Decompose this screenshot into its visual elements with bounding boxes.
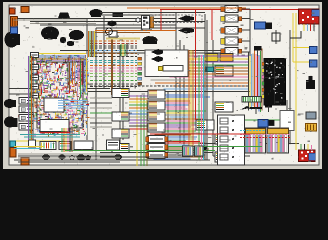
row connectors [138,57,142,85]
switch S3 [74,141,93,150]
label specks [14,8,316,162]
connector yellow top [205,54,218,62]
wire green low [150,145,262,147]
sensor bottom [199,146,208,151]
motor M2 [58,155,65,160]
rear harness connector B [267,128,289,153]
interior lamp 1 [178,16,194,22]
harness center-left [90,41,137,87]
wire [30,21,205,23]
connector bottom B [195,146,204,156]
connector XB3 [148,112,165,121]
harness to fuse box [249,48,263,112]
ignition relay [58,13,70,19]
ignition coil [272,30,280,44]
connector XA2 [112,112,129,121]
switch S1 [40,142,56,150]
lamp bullet 4b [151,56,163,62]
connector nub yellow [159,67,163,71]
wire [204,14,206,160]
wire [14,159,210,161]
instrument cluster window [44,98,64,112]
wire yellow bundle [136,95,138,166]
connector XC5 [196,120,214,130]
lamp L3 [221,27,242,35]
wire green right [240,119,290,121]
wire dashed bus [90,85,250,87]
relay box [142,16,154,30]
wire bundle right [240,131,291,138]
connector bottom A [183,146,194,156]
wire [183,45,185,150]
scan noise [10,6,319,164]
wire [9,88,110,90]
wire [40,24,176,26]
switch S2 [59,142,71,150]
harness vertical center [189,10,204,160]
wire [95,28,97,160]
turn lamp orange [21,7,29,13]
wire green bundle [143,95,145,166]
black drop [202,150,204,158]
wire brown trunk [111,33,113,95]
wire trunk pair [206,20,208,160]
regulator stripes [13,18,16,26]
coolant sensor [67,41,75,46]
cluster teal rows [20,135,80,138]
tail lamp cluster [218,115,245,165]
wire red top [160,9,299,11]
wire [86,19,88,140]
wire yellow bottom [14,140,60,142]
wire yellow branch [293,47,310,49]
connector XA3 [112,129,129,138]
rear harness connector A [245,128,266,153]
cluster bottom drop [62,128,72,152]
lamp bullet 3 [151,49,163,55]
connector yellow right [306,124,317,132]
switch outline b [163,66,183,72]
wiper motor [143,36,158,44]
box bottom-left [29,140,36,147]
motor M3 [77,155,92,161]
cluster backdrop [30,54,87,135]
starter [69,30,84,40]
lamp bullet 3b [151,49,163,55]
headlamp lower [4,117,18,128]
battery wires [301,144,312,150]
harness left of column [90,98,112,127]
wire orange top [95,30,176,32]
harness center [129,95,210,159]
lamp L2 [221,15,242,22]
wire red low2 [150,141,200,143]
wire [14,18,176,20]
connector orange top [220,54,233,62]
cluster red row [40,132,70,134]
wire [103,16,105,88]
connector XC1 [215,66,233,76]
connector XC4 [215,152,233,162]
wire [167,92,169,152]
connector XB5 [146,136,168,143]
harness drop to cluster [89,31,95,57]
left harness [29,56,34,140]
harness center-right [151,56,248,89]
distributor cap [266,23,272,29]
teal box [206,67,214,72]
interior lamp 2 [178,28,194,34]
wire [100,152,213,154]
lamp L4 [221,37,242,45]
relay blue small [258,120,268,128]
instrument cluster wiring [30,54,90,138]
green striped connector [242,97,261,103]
lamp L1 [221,6,242,13]
spark plug [254,46,261,56]
connector orange edge [10,8,16,14]
relay R1 blue [310,47,318,54]
wire [90,52,230,54]
interior panel [145,50,188,77]
generator [41,27,59,40]
wire yellow branch [293,61,310,63]
bottom bus [18,154,120,162]
body outline dashed [153,15,202,23]
motor M4 [114,154,122,159]
heater box [107,140,120,150]
wire yellow vertical [292,13,294,62]
wire [88,91,250,93]
wire [9,93,88,95]
wire [179,40,181,143]
washer pump ring [136,18,140,22]
instrument cluster window lower [40,120,69,132]
wire red left [160,10,162,31]
connector XB1 [148,90,165,99]
headlamp upper-left [5,32,21,48]
wire yellow bottom2 [14,146,44,148]
steering column connectors [31,53,39,99]
ignition switch [299,9,320,31]
connector XA1 [112,89,129,98]
switch cyan [10,141,16,147]
wire orange bus top [127,7,246,9]
instrument cluster outline [37,62,83,128]
connector nub yellow b [159,67,163,71]
connector XC3 [215,134,233,144]
black bracket [269,120,275,126]
connector XB2 [148,101,165,110]
wire [119,45,121,152]
wire red low [150,133,250,135]
wire [213,155,250,157]
wire brown top [95,32,150,34]
connector XB6 [146,144,168,151]
top bus extra [14,13,205,24]
wire [60,50,230,52]
wiper relay [113,13,123,17]
washer pump [106,28,113,35]
relay R2 blue [310,60,318,67]
wire olive bundle [146,100,148,166]
license lamp box [280,111,294,131]
wire cyan bottom [14,148,40,150]
relay orange [11,17,18,28]
fog lamp [4,99,16,108]
battery [299,150,316,162]
connector XB7 [146,152,168,159]
wire [200,143,299,145]
connector XA4 [112,144,129,153]
switch outline [163,66,183,72]
relay small white [109,31,117,37]
lever switch [240,106,252,110]
wire [289,30,291,143]
harness drop to junction [121,44,127,56]
wire red drop [211,10,213,41]
oil sensor [60,37,66,43]
lamp feed wires [242,9,251,56]
connector XB4 [148,123,165,132]
distributor [255,22,266,29]
stop switch [306,76,315,89]
hazard bar 2 [265,107,272,113]
flasher gray [306,112,316,119]
wire [175,12,177,120]
wire red cluster [18,115,62,117]
connector XC2 [215,102,233,112]
hazard bar [250,108,262,114]
wire [212,40,214,156]
motor M1 [42,154,50,159]
lamp bullet 4 [151,56,163,62]
fuse box [262,58,286,105]
horn [90,9,103,17]
wire ignition drop [290,31,301,38]
switch column lower [19,98,33,131]
wire [122,45,124,140]
wire [96,27,205,29]
wire green bottom long [65,150,215,152]
wire bottom partial [100,156,190,158]
wire green bundle [140,95,142,166]
switch orange small [21,158,29,166]
wire [286,100,288,143]
switch orange tall [10,148,16,158]
lamp L5 [221,48,242,57]
small motor [108,21,117,27]
cluster lavender rows [58,101,87,109]
relay blue [11,27,18,34]
wire yellow main [295,13,297,150]
lamp bottom [70,155,74,159]
wire yellow band [106,38,140,40]
